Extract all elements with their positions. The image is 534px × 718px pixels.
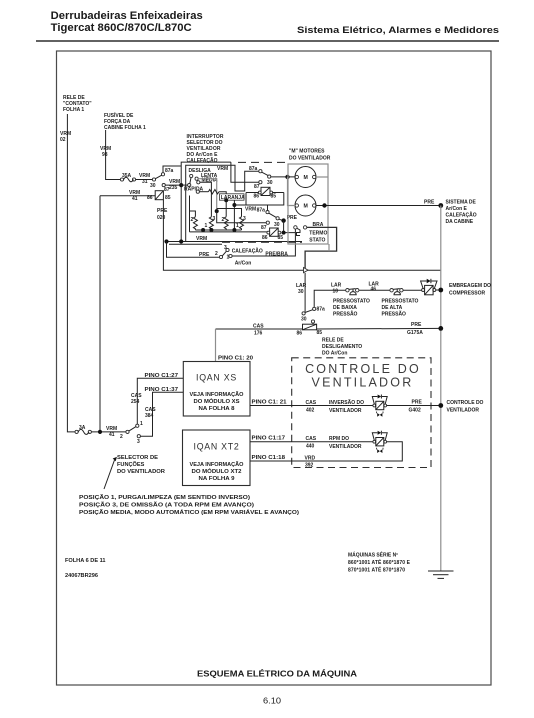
crossing hop arrow <box>304 268 309 273</box>
svg-text:3: 3 <box>137 439 140 445</box>
junction laranja <box>232 203 236 207</box>
wire CAS 254 <box>137 378 183 424</box>
svg-text:POSIÇÃO 1, PURGA/LIMPEZA (EM S: POSIÇÃO 1, PURGA/LIMPEZA (EM SENTIDO INV… <box>79 494 250 501</box>
svg-text:2: 2 <box>222 217 225 223</box>
wire lower return <box>169 243 222 245</box>
svg-text:2: 2 <box>191 217 194 223</box>
wire CAS 176 <box>216 328 303 330</box>
svg-text:85: 85 <box>271 194 277 200</box>
wire CAS 402 / pino C1:21 <box>250 405 374 407</box>
wire VRM 235 <box>165 184 181 186</box>
svg-text:DO MÓDULO XT2: DO MÓDULO XT2 <box>192 467 242 475</box>
svg-text:3: 3 <box>224 245 227 251</box>
svg-text:FOLHA 6 DE 11: FOLHA 6 DE 11 <box>65 558 106 564</box>
svg-text:POSIÇÃO 3, DE OMISSÃO (A TODA: POSIÇÃO 3, DE OMISSÃO (A TODA RPM EM AVA… <box>79 502 254 509</box>
resistor series rapida <box>208 190 219 194</box>
relay R2 30 <box>268 175 271 178</box>
svg-text:VEJA INFORMAÇÃO: VEJA INFORMAÇÃO <box>190 461 244 468</box>
svg-text:SELECTOR DE: SELECTOR DE <box>117 455 158 461</box>
svg-text:NA FOLHA 8: NA FOLHA 8 <box>199 406 235 412</box>
svg-text:VRD: VRD <box>305 456 316 462</box>
junction clutch to bus <box>436 289 441 291</box>
svg-text:VRM: VRM <box>245 207 256 213</box>
svg-text:COMPRESSOR: COMPRESSOR <box>449 291 486 297</box>
wire LAR 46 <box>359 289 390 291</box>
outer box right drop to 87 of R2 <box>231 162 259 182</box>
svg-text:CALEFAÇÃO: CALEFAÇÃO <box>446 212 477 219</box>
svg-text:85: 85 <box>165 195 171 201</box>
relay R1 contact 30 <box>152 178 155 181</box>
svg-text:Derrubadeiras Enfeixadeiras: Derrubadeiras Enfeixadeiras <box>51 10 203 22</box>
wire 30 to motor1 <box>271 176 296 178</box>
svg-text:PRE/BRA: PRE/BRA <box>265 252 288 258</box>
svg-text:Tigercat 860C/870C/L870C: Tigercat 860C/870C/L870C <box>51 22 192 34</box>
svg-text:30: 30 <box>267 180 273 186</box>
svg-text:CALEFAÇÃO: CALEFAÇÃO <box>187 157 218 164</box>
svg-text:"M" MOTORES: "M" MOTORES <box>289 149 325 155</box>
relay R1 coil <box>155 191 163 200</box>
svg-text:PRESSOSTATO: PRESSOSTATO <box>333 299 370 305</box>
clutch flyback diode loop <box>421 281 427 289</box>
svg-text:FUNÇÕES: FUNÇÕES <box>117 461 145 468</box>
motor M1 <box>295 167 316 188</box>
pressostato alta <box>390 289 393 292</box>
wire selector bottom VRM <box>167 241 303 243</box>
svg-text:85: 85 <box>317 330 323 336</box>
svg-text:M: M <box>304 175 308 181</box>
resistor RA <box>193 217 197 230</box>
svg-text:Ar/Con E: Ar/Con E <box>446 206 468 212</box>
svg-text:41: 41 <box>109 432 115 438</box>
svg-text:235: 235 <box>169 185 178 191</box>
junction <box>98 430 102 434</box>
svg-text:STATO: STATO <box>309 238 325 244</box>
wire M1-M2 link <box>288 177 296 206</box>
termostato contacts <box>294 226 297 229</box>
svg-text:IQAN XS: IQAN XS <box>196 373 237 383</box>
termostato element <box>297 228 301 235</box>
svg-text:2: 2 <box>120 434 123 440</box>
wire resistor return <box>190 231 268 233</box>
arrow to selector <box>104 460 115 489</box>
common contact <box>219 255 222 258</box>
svg-text:30: 30 <box>274 222 280 228</box>
dashed demarcation top <box>238 161 288 163</box>
main PRE bus vertical <box>440 206 442 572</box>
wire R2 coil 86 <box>246 192 258 194</box>
svg-text:PRE: PRE <box>411 322 422 328</box>
junction sistema <box>438 203 443 208</box>
svg-text:30: 30 <box>301 317 307 323</box>
svg-text:DO MÓDULO XS: DO MÓDULO XS <box>194 397 241 405</box>
contact 3 calefacao <box>226 248 229 251</box>
contact 1 ar/con <box>229 254 232 257</box>
dashed demarcation bottom <box>222 241 302 243</box>
module IQAN XT2 box <box>183 430 251 486</box>
svg-text:G175A: G175A <box>407 330 423 336</box>
wire PRE G402 <box>387 405 441 407</box>
svg-text:VENTILADOR: VENTILADOR <box>312 375 414 389</box>
svg-text:440: 440 <box>306 444 315 450</box>
wire VRM 98 <box>106 130 121 180</box>
svg-text:PRE: PRE <box>424 200 435 206</box>
svg-text:Ar/Con: Ar/Con <box>235 261 252 267</box>
pressostato baixa <box>346 289 349 292</box>
svg-text:POSIÇÃO MEDIA, MODO AUTOMÁTICO: POSIÇÃO MEDIA, MODO AUTOMÁTICO (EM RPM V… <box>79 509 299 516</box>
svg-text:MÁQUINAS SÉRIE Nº: MÁQUINAS SÉRIE Nº <box>348 551 398 559</box>
svg-text:87: 87 <box>261 225 267 231</box>
wire LENTA <box>198 179 217 211</box>
svg-text:G402: G402 <box>409 408 421 414</box>
svg-text:10: 10 <box>333 289 339 295</box>
resistor RB <box>209 217 213 230</box>
relay R3 87 <box>266 221 269 224</box>
svg-text:PRE: PRE <box>412 400 423 406</box>
wire BRA from motor box <box>328 244 330 251</box>
svg-text:CALEFAÇÃO: CALEFAÇÃO <box>232 248 263 255</box>
svg-text:87a: 87a <box>249 166 258 172</box>
wire MEDIA <box>200 182 212 217</box>
resistor RD <box>240 217 244 230</box>
selector de funcoes switch: common 2 <box>126 430 129 433</box>
compressor clutch coil <box>422 289 425 292</box>
svg-text:DO VENTILADOR: DO VENTILADOR <box>289 156 331 162</box>
svg-text:86: 86 <box>262 235 268 241</box>
svg-text:CONTROLE DO: CONTROLE DO <box>447 400 484 406</box>
relay R1 contact 87 <box>162 184 165 187</box>
relay R2 87 <box>259 181 262 184</box>
wire VRM 41 top <box>100 195 155 197</box>
wire laranja drop <box>233 200 235 228</box>
svg-text:176: 176 <box>254 331 263 337</box>
svg-text:020: 020 <box>157 215 166 221</box>
svg-text:VRM: VRM <box>196 236 207 242</box>
controle dashed box <box>292 358 431 468</box>
svg-text:1: 1 <box>236 223 239 229</box>
svg-text:87a: 87a <box>165 168 174 174</box>
svg-text:402: 402 <box>306 408 315 414</box>
svg-text:30: 30 <box>150 183 156 189</box>
relay R4 30 <box>302 312 305 315</box>
svg-text:EMBREAGEM DO: EMBREAGEM DO <box>449 283 491 289</box>
svg-text:PRE: PRE <box>157 208 168 214</box>
relay R2 coil <box>261 187 270 195</box>
svg-text:DO Ar/Con: DO Ar/Con <box>322 351 347 357</box>
wire fuse to node <box>91 431 126 433</box>
svg-text:41: 41 <box>132 196 138 202</box>
svg-text:DESLIGAMENTO: DESLIGAMENTO <box>322 344 362 350</box>
svg-text:VENTILADOR: VENTILADOR <box>329 408 362 414</box>
ground <box>428 570 454 572</box>
svg-text:PINO C1:37: PINO C1:37 <box>145 387 179 393</box>
wire to clutch <box>403 289 422 291</box>
wire 87 feed of R3 <box>217 211 267 223</box>
svg-text:PINO C1: 21: PINO C1: 21 <box>252 400 287 406</box>
relay R4 87 <box>311 320 314 323</box>
svg-text:CABINE FOLHA 1: CABINE FOLHA 1 <box>104 125 146 131</box>
wire ar/con to termostato <box>232 229 295 256</box>
relay R4 coil <box>303 324 317 330</box>
wire R2 coil 85 to R3 <box>273 192 284 194</box>
svg-text:FOLHA 1: FOLHA 1 <box>63 107 84 113</box>
svg-text:CONTROLE DO: CONTROLE DO <box>305 362 421 376</box>
relay R3 30 <box>276 217 279 220</box>
svg-text:98: 98 <box>102 152 108 158</box>
svg-text:24067BR296: 24067BR296 <box>65 573 98 579</box>
svg-text:870*1001 ATÉ 870*1870: 870*1001 ATÉ 870*1870 <box>348 566 405 574</box>
wire VRM 31 <box>136 179 153 181</box>
svg-text:85: 85 <box>278 235 284 241</box>
schematic frame <box>57 51 492 685</box>
svg-text:DA CABINE: DA CABINE <box>446 219 474 225</box>
svg-text:87a: 87a <box>317 307 326 313</box>
svg-text:87: 87 <box>254 184 260 190</box>
svg-text:46: 46 <box>371 287 377 293</box>
selector inner box <box>186 165 259 241</box>
svg-text:INVERSÃO DO: INVERSÃO DO <box>329 399 364 406</box>
svg-text:IQAN XT2: IQAN XT2 <box>194 442 240 452</box>
svg-text:RPM DO: RPM DO <box>329 436 349 442</box>
svg-text:DE BAIXA: DE BAIXA <box>333 305 357 311</box>
svg-text:384: 384 <box>145 413 154 419</box>
svg-text:1: 1 <box>227 255 230 261</box>
wire CAS 384 <box>140 392 183 436</box>
wire RAPIDA with resistor <box>199 191 208 193</box>
wire M2 out PRE <box>316 205 441 207</box>
svg-text:1: 1 <box>140 421 143 427</box>
resistor RC <box>224 217 228 230</box>
svg-text:VRM: VRM <box>217 166 228 172</box>
svg-text:02: 02 <box>60 137 66 143</box>
svg-text:31: 31 <box>142 179 148 185</box>
svg-text:SISTEMA DE: SISTEMA DE <box>446 200 477 206</box>
wire CAS 440 / pino C1:17 <box>250 441 374 443</box>
wire VRM41 vertical <box>99 196 101 432</box>
motors enclosure <box>288 164 328 244</box>
svg-text:Sistema Elétrico, Alarmes e Me: Sistema Elétrico, Alarmes e Medidores <box>297 25 499 35</box>
svg-text:6.10: 6.10 <box>263 697 282 706</box>
contact 3 <box>137 435 140 438</box>
svg-text:VEJA INFORMAÇÃO: VEJA INFORMAÇÃO <box>190 391 244 398</box>
wire VRM 02 vertical <box>67 114 76 432</box>
resistor bottom bus <box>195 229 241 231</box>
svg-text:PRESSÃO: PRESSÃO <box>382 311 407 318</box>
svg-text:CAS: CAS <box>306 436 317 442</box>
label LARANJA <box>220 194 245 200</box>
relay R4 87a <box>313 307 316 310</box>
wire PRE G175A <box>317 327 441 330</box>
svg-text:CAS: CAS <box>253 324 264 330</box>
header rule <box>36 40 499 42</box>
svg-text:M: M <box>304 204 308 210</box>
svg-text:86: 86 <box>297 331 303 337</box>
svg-text:DE ALTA: DE ALTA <box>382 305 403 311</box>
junction PRE <box>281 218 285 222</box>
relay R1 contact 87a <box>161 173 164 176</box>
svg-text:PINO C1:18: PINO C1:18 <box>252 455 286 461</box>
selector outer box <box>181 162 231 241</box>
svg-text:NA FOLHA 9: NA FOLHA 9 <box>199 476 235 482</box>
svg-text:FUSÍVEL DE: FUSÍVEL DE <box>104 111 134 119</box>
svg-text:3: 3 <box>213 216 216 222</box>
svg-text:PINO C1:27: PINO C1:27 <box>145 373 179 379</box>
module IQAN XS box <box>183 362 250 417</box>
wire VRD 392 loop <box>250 442 402 461</box>
wire LAR 30 <box>304 273 306 312</box>
svg-text:392: 392 <box>305 463 314 469</box>
wire PRE to ar/con switch <box>167 242 220 258</box>
termostato loop wire <box>305 227 337 268</box>
wire VRM to R3 <box>234 193 283 206</box>
resistor bank left loop <box>189 196 191 232</box>
svg-text:87a: 87a <box>257 208 266 214</box>
motor M2 <box>295 195 316 216</box>
svg-text:RELE DE: RELE DE <box>322 338 344 344</box>
wire M1 right to box edge <box>316 176 328 178</box>
wire PRE 020 <box>163 200 440 271</box>
svg-text:TERMO: TERMO <box>309 231 327 237</box>
svg-text:VENTILADOR: VENTILADOR <box>329 444 362 450</box>
diode pack rpm <box>373 440 376 443</box>
wire LAR 10 <box>314 290 346 307</box>
svg-text:PRESSÃO: PRESSÃO <box>333 311 358 318</box>
svg-text:86: 86 <box>254 194 260 200</box>
wire PRE junction down <box>284 221 296 233</box>
svg-text:2: 2 <box>215 251 218 257</box>
svg-text:254: 254 <box>131 399 140 405</box>
svg-text:CAS: CAS <box>306 400 317 406</box>
svg-text:1: 1 <box>205 223 208 229</box>
relay R3 coil <box>270 228 279 236</box>
svg-text:3: 3 <box>243 216 246 222</box>
junction VRM235 <box>179 183 183 187</box>
junction controle <box>438 403 443 408</box>
svg-text:860*1001 ATÉ 860*1870 E: 860*1001 ATÉ 860*1870 E <box>348 558 411 566</box>
svg-text:VENTILADOR: VENTILADOR <box>447 408 480 414</box>
contact 1 <box>136 424 139 427</box>
svg-text:PINO C1:17: PINO C1:17 <box>252 436 286 442</box>
svg-text:ESQUEMA ELÉTRICO DA MÁQUINA: ESQUEMA ELÉTRICO DA MÁQUINA <box>197 669 357 679</box>
wire 87a up to selector box <box>163 166 181 173</box>
svg-text:DO VENTILADOR: DO VENTILADOR <box>117 469 165 475</box>
diode pack inversao <box>373 404 376 407</box>
svg-text:PINO C1: 20: PINO C1: 20 <box>218 356 253 362</box>
svg-text:BRA: BRA <box>313 222 324 228</box>
svg-text:30: 30 <box>298 289 304 295</box>
wire resistor top RD <box>217 209 242 217</box>
switch wiper <box>188 184 191 187</box>
svg-text:PRE: PRE <box>199 252 210 258</box>
svg-text:PRESSOSTATO: PRESSOSTATO <box>382 299 419 305</box>
